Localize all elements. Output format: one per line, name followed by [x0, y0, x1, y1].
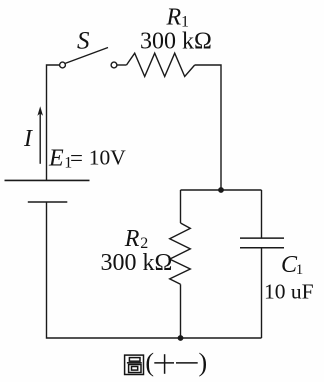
wire C1 top lead [261, 190, 263, 238]
svg-text:E: E [48, 145, 64, 171]
wire C1 bottom lead [261, 248, 263, 338]
svg-text:R: R [166, 4, 182, 30]
node junction R1/R2/C1 [218, 187, 224, 193]
wire parallel top bus [181, 189, 262, 191]
caption figure (eleven) [125, 354, 198, 374]
svg-text:10V: 10V [89, 146, 127, 170]
wire battery to bottom bus [47, 202, 262, 338]
current arrow I [39, 112, 41, 164]
svg-text:I: I [23, 126, 33, 152]
caption glyph ten [154, 362, 174, 364]
svg-text:1: 1 [296, 262, 304, 278]
node junction bottom [178, 335, 184, 341]
svg-text:300 kΩ: 300 kΩ [140, 29, 212, 55]
caption glyph TU (figure) [125, 355, 144, 374]
current arrow head [37, 106, 43, 116]
wire R2 top lead [180, 190, 182, 223]
wire R1 to right rail down to junction [195, 65, 221, 190]
svg-text:10 uF: 10 uF [264, 280, 314, 304]
resistor R2 [170, 223, 191, 284]
capacitor C1 [240, 238, 284, 248]
svg-text:R: R [124, 226, 140, 252]
svg-text:(: ( [145, 348, 154, 377]
battery E1 [5, 180, 90, 202]
resistor R1 [127, 53, 195, 76]
wire left rail top [47, 65, 60, 180]
svg-text:S: S [77, 28, 90, 55]
switch S [60, 48, 117, 68]
svg-text:=: = [70, 145, 83, 170]
caption glyph one [176, 362, 198, 364]
svg-text:): ) [199, 348, 208, 377]
wire switch to R1 [117, 64, 127, 66]
svg-text:300 kΩ: 300 kΩ [101, 250, 173, 276]
wire R2 bottom lead [180, 284, 182, 338]
